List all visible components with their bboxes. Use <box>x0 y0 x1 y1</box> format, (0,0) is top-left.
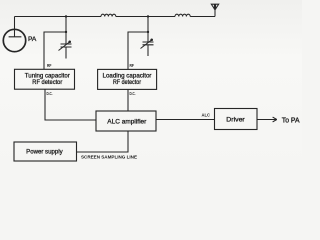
svg-text:RF detector: RF detector <box>32 79 63 86</box>
svg-text:RF detector: RF detector <box>113 79 142 86</box>
svg-text:Driver: Driver <box>226 116 245 123</box>
svg-text:To PA: To PA <box>282 117 300 124</box>
svg-text:D.C.: D.C. <box>130 91 136 96</box>
svg-text:SCREEN SAMPLING LINE: SCREEN SAMPLING LINE <box>81 154 137 159</box>
svg-text:D.C.: D.C. <box>47 91 53 96</box>
svg-text:ALC amplifier: ALC amplifier <box>107 119 147 126</box>
svg-text:ALC: ALC <box>202 112 211 117</box>
svg-text:RF: RF <box>47 63 52 68</box>
svg-text:PA: PA <box>28 36 37 43</box>
svg-text:RF: RF <box>130 63 135 68</box>
svg-text:Power supply: Power supply <box>26 149 63 156</box>
